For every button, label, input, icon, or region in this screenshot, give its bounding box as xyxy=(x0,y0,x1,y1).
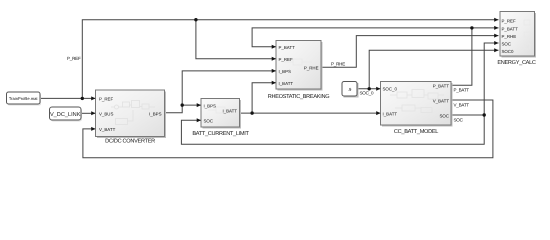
svg-text:P_BATT: P_BATT xyxy=(454,88,470,93)
block BATT_CURRENT_LIMIT xyxy=(192,99,249,138)
block ENERGY_CALC xyxy=(497,12,536,67)
node: P_BATT junction xyxy=(470,26,473,29)
block DC/DC CONVERTER xyxy=(96,90,167,145)
wire: V_DC_LINK to DC/DC V_BUS xyxy=(81,112,96,114)
port arrow DC/DC V_BUS xyxy=(91,111,95,115)
wire: SOC_0 branch up to ENERGY_CALC SOC0 xyxy=(369,50,498,89)
node: P_REF junction near DC/DC xyxy=(81,97,84,100)
wire: SOC branch up to ENERGY_CALC xyxy=(484,43,498,115)
svg-text:RHEOSTATIC_BREAKING: RHEOSTATIC_BREAKING xyxy=(268,94,330,100)
port arrow CC I_BATT xyxy=(376,111,380,115)
svg-text:P_RHE: P_RHE xyxy=(304,66,319,71)
port arrow BATT SOC xyxy=(197,118,201,122)
port arrow RHEO P_REF xyxy=(272,57,276,61)
wire: CC_BATT_MODEL V_BATT feedback to DC/DC V_BATT xyxy=(83,100,493,158)
svg-text:V_BATT: V_BATT xyxy=(99,127,116,132)
svg-text:DC/DC CONVERTER: DC/DC CONVERTER xyxy=(105,138,155,145)
svg-text:P_BATT: P_BATT xyxy=(279,45,296,50)
wire: CC_BATT_MODEL P_BATT up to ENERGY_CALC xyxy=(451,28,499,85)
wire: RHEOSTATIC P_RHE to ENERGY_CALC xyxy=(321,36,499,68)
block constant 0.9 xyxy=(342,82,359,98)
svg-text:I_BATT: I_BATT xyxy=(383,112,398,117)
node: I_BATT junction xyxy=(250,111,253,114)
wire: BATT_CURRENT_LIMIT I_BATT to CC_BATT_MODEL xyxy=(239,112,380,114)
svg-text:I_BATT: I_BATT xyxy=(279,81,294,86)
node: SOC_0 junction xyxy=(368,87,371,90)
wire: constant 0.9 to CC_BATT_MODEL SOC_0 xyxy=(357,88,381,90)
svg-text:V_BATT: V_BATT xyxy=(433,98,450,103)
svg-text:P_REF: P_REF xyxy=(99,96,113,101)
port arrow ENERGY SOC xyxy=(494,41,498,45)
svg-text:SOC0: SOC0 xyxy=(502,49,515,54)
svg-text:P_RHE: P_RHE xyxy=(331,62,345,67)
node: P_REF junction on top line xyxy=(194,18,197,21)
wire: SOC branch down feedback to BATT_CURRENT_LIMIT xyxy=(181,115,484,144)
wire: I_BPS branch up to RHEOSTATIC_BREAKING xyxy=(182,71,276,105)
wire: P_BATT branch left and down to RHEOSTATIC_BREAKING xyxy=(252,28,472,47)
node: I_BPS junction xyxy=(181,103,184,106)
svg-text:P_BATT: P_BATT xyxy=(433,84,450,89)
wire: I_BATT branch up to RHEOSTATIC_BREAKING xyxy=(252,83,276,113)
svg-text:SOC_0: SOC_0 xyxy=(383,87,398,92)
wire: TrainProfile.mat to DC/DC P_REF xyxy=(40,97,96,99)
svg-text:I_BATT: I_BATT xyxy=(222,108,237,113)
svg-text:I_BPS: I_BPS xyxy=(279,69,292,74)
svg-text:SOC: SOC xyxy=(502,42,512,47)
svg-text:P_REF: P_REF xyxy=(279,57,293,62)
svg-text:P_RHE: P_RHE xyxy=(502,34,517,39)
svg-text:SOC: SOC xyxy=(439,113,449,118)
wire: P_REF branch down to RHEOSTATIC_BREAKING xyxy=(196,20,276,59)
port arrow DC/DC P_REF xyxy=(91,96,95,100)
wire: CC_BATT_MODEL SOC output xyxy=(451,114,484,116)
port arrow RHEO I_BPS xyxy=(272,69,276,73)
svg-text:P_REF: P_REF xyxy=(502,18,516,23)
wire: DC/DC I_BPS to BATT_CURRENT_LIMIT xyxy=(165,105,202,113)
svg-text:SOC: SOC xyxy=(454,117,464,122)
port arrow ENERGY SOC0 xyxy=(494,48,498,52)
svg-text:TrainProfile.mat: TrainProfile.mat xyxy=(9,96,39,101)
port arrow ENERGY P_RHE xyxy=(494,34,498,38)
block V_DC_LINK input xyxy=(50,107,83,122)
svg-text:I_BPS: I_BPS xyxy=(204,103,217,108)
svg-text:P_REF: P_REF xyxy=(67,56,81,61)
block TrainProfile.mat source xyxy=(7,92,42,106)
node: SOC junction xyxy=(483,113,486,116)
block RHEOSTATIC_BREAKING xyxy=(268,41,330,101)
svg-text:V_DC_LINK: V_DC_LINK xyxy=(50,112,81,118)
svg-text:CC_BATT_MODEL: CC_BATT_MODEL xyxy=(394,129,438,135)
wire: P_REF branch up and across to ENERGY_CALC xyxy=(82,20,498,99)
svg-text:V_BATT: V_BATT xyxy=(454,102,470,107)
svg-text:SOC_0: SOC_0 xyxy=(360,91,374,96)
port arrow BATT I_BPS xyxy=(197,103,201,107)
port arrow RHEO I_BATT xyxy=(272,81,276,85)
port arrow DC/DC V_BATT xyxy=(91,127,95,131)
port arrow ENERGY P_REF xyxy=(494,18,498,22)
svg-text:P_BATT: P_BATT xyxy=(502,26,519,31)
svg-text:BATT_CURRENT_LIMIT: BATT_CURRENT_LIMIT xyxy=(192,131,249,137)
svg-text:I_BPS: I_BPS xyxy=(149,111,162,116)
port arrow ENERGY P_BATT xyxy=(494,26,498,30)
svg-text:SOC: SOC xyxy=(204,118,214,123)
port arrow CC SOC_0 xyxy=(376,87,380,91)
port arrow RHEO P_BATT xyxy=(272,45,276,49)
block CC_BATT_MODEL xyxy=(381,82,453,136)
svg-text:ENERGY_CALC: ENERGY_CALC xyxy=(497,60,536,66)
svg-text:V_BUS: V_BUS xyxy=(99,111,113,116)
